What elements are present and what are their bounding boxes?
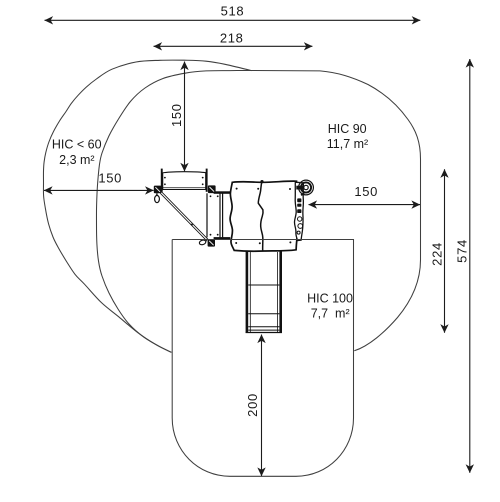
bottom shackle bbox=[199, 239, 207, 245]
bottom connector bar bbox=[214, 237, 231, 239]
dimension 150 right bbox=[309, 204, 421, 206]
dimension 518 bbox=[45, 19, 421, 21]
dimension 150 left bbox=[44, 189, 154, 191]
right climb panel bbox=[294, 182, 303, 240]
HIC 100 zone outline bbox=[172, 240, 353, 477]
post left black square bbox=[154, 186, 162, 194]
svg-text:HIC 100: HIC 100 bbox=[307, 292, 353, 306]
net frame verticals bbox=[207, 193, 223, 237]
dimension 150 top vertical bbox=[184, 62, 186, 172]
svg-text:518: 518 bbox=[221, 4, 245, 19]
dimension 224 bbox=[444, 169, 446, 332]
beam inner line bbox=[163, 186, 206, 188]
slide cross lines bbox=[246, 285, 282, 333]
dimension 574 bbox=[469, 59, 471, 473]
svg-text:150: 150 bbox=[169, 103, 184, 127]
svg-text:HIC 90: HIC 90 bbox=[328, 122, 367, 136]
platform deck bbox=[230, 181, 298, 251]
wheel axle bbox=[296, 186, 303, 190]
steering wheel bbox=[299, 180, 314, 195]
net frame screws bbox=[210, 195, 219, 235]
beam right end cap bbox=[206, 169, 208, 192]
svg-text:150: 150 bbox=[98, 170, 122, 185]
seam top bracket bbox=[260, 180, 263, 183]
svg-text:200: 200 bbox=[245, 393, 260, 417]
rope dot bbox=[191, 224, 193, 226]
svg-text:224: 224 bbox=[430, 242, 445, 266]
svg-text:7,7 m²: 7,7 m² bbox=[311, 307, 350, 321]
panel knobs bbox=[297, 198, 301, 213]
dimension 218 bbox=[154, 45, 313, 47]
svg-text:11,7 m²: 11,7 m² bbox=[327, 137, 368, 151]
deck middle seam bbox=[258, 181, 263, 250]
deck screws bbox=[235, 188, 291, 245]
slide right rail bbox=[279, 251, 282, 333]
slide inner rails bbox=[250, 252, 277, 332]
beam left end cap bbox=[161, 169, 163, 192]
panel holds bbox=[297, 217, 303, 234]
svg-text:2,3 m²: 2,3 m² bbox=[59, 153, 94, 167]
balance beam body bbox=[163, 172, 206, 190]
shackle under left post bbox=[155, 193, 160, 202]
rope diagonal bbox=[160, 192, 208, 241]
panel knob pins bbox=[299, 203, 300, 209]
svg-text:218: 218 bbox=[220, 30, 244, 45]
svg-text:150: 150 bbox=[354, 184, 378, 199]
post bottom black square bbox=[208, 239, 215, 246]
svg-text:574: 574 bbox=[455, 239, 470, 263]
HIC 90 zone outline bbox=[96, 71, 420, 353]
svg-text:HIC < 60: HIC < 60 bbox=[52, 138, 102, 152]
top connector bar bbox=[214, 191, 230, 194]
dimension 200 bbox=[261, 335, 263, 477]
post right black square bbox=[208, 185, 216, 193]
slide left rail bbox=[246, 251, 249, 333]
HIC &lt; 60 zone outline bbox=[43, 60, 251, 352]
beam screws bbox=[164, 177, 204, 186]
